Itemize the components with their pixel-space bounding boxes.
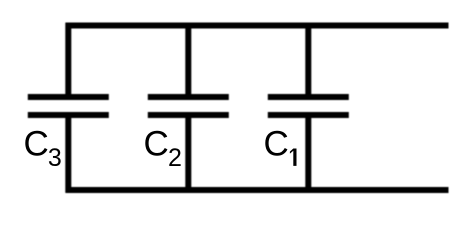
wire: C3 bottom lead <box>65 115 71 193</box>
wire: C3 top lead <box>65 23 71 97</box>
wire: C2 top lead <box>185 26 191 98</box>
svg-text:2: 2 <box>168 144 182 172</box>
capacitor C2 <box>148 97 229 115</box>
capacitor C3 <box>28 97 109 115</box>
wire: bottom bus <box>66 187 449 193</box>
wire: top bus <box>66 23 449 29</box>
svg-text:3: 3 <box>48 144 62 172</box>
capacitor C1 <box>268 97 349 115</box>
svg-text:C: C <box>144 125 169 164</box>
label C1 <box>264 125 297 166</box>
wire: C1 bottom lead <box>305 115 311 190</box>
svg-text:C: C <box>24 125 49 164</box>
wire: C2 bottom lead <box>185 115 191 190</box>
svg-text:C: C <box>264 125 289 164</box>
wire: C1 top lead <box>305 26 311 98</box>
label C2 <box>144 125 182 173</box>
label C3 <box>24 125 62 173</box>
